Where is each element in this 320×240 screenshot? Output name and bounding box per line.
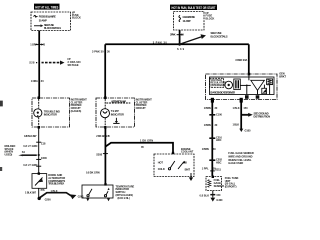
label 1 BRN 30 (3) — [202, 147, 217, 151]
svg-text:10 AMP: 10 AMP — [183, 19, 191, 23]
svg-text:G400: G400 — [216, 198, 223, 202]
ground G200 — [38, 197, 52, 202]
svg-text:(INTERNAL): (INTERNAL) — [210, 83, 224, 87]
wire W10 L circuit — [211, 102, 213, 176]
label 1 BLK 150 — [233, 106, 249, 110]
connector C202 — [209, 158, 222, 165]
wire W4 to generator — [248, 44, 250, 73]
generator B+ terminal — [248, 73, 251, 76]
svg-text:0.8 LT GRN: 0.8 LT GRN — [23, 163, 37, 167]
wire W1 main feed from F1 — [38, 31, 40, 99]
svg-text:1 BRN: 1 BRN — [204, 106, 211, 110]
connector S211 — [210, 168, 221, 172]
svg-text:0.8 BLK 897: 0.8 BLK 897 — [24, 134, 37, 138]
svg-text:COLD: COLD — [158, 167, 165, 171]
resistor box — [267, 79, 273, 85]
label 1 PPL 30 — [202, 166, 217, 170]
instrument cluster box left (charge indicator) — [32, 96, 70, 128]
svg-text:0.8 BLK: 0.8 BLK — [200, 193, 210, 197]
scan artifact left edge 2 — [0, 167, 2, 171]
wire W12 sender ground — [212, 191, 214, 198]
switch bottom terminals — [86, 198, 110, 201]
wire W5 to cluster — [104, 44, 106, 97]
svg-text:CHARGE INDICATOR DRIVER: CHARGE INDICATOR DRIVER — [210, 91, 235, 95]
svg-text:0.8 DK GRN: 0.8 DK GRN — [86, 170, 100, 174]
svg-text:1 ORA: 1 ORA — [31, 79, 38, 83]
diode module box — [32, 172, 47, 188]
diode square — [262, 88, 267, 94]
ground branch wire — [39, 193, 72, 198]
svg-text:BLOCK DETAILS: BLOCK DETAILS — [44, 26, 61, 30]
svg-text:1 BRN: 1 BRN — [202, 147, 209, 151]
gauge symbol — [113, 118, 119, 124]
connector C210 — [209, 135, 222, 142]
svg-text:INDICATOR: INDICATOR — [111, 112, 124, 116]
wire W2 from F2 — [179, 30, 181, 44]
wire W3 bus horizontal — [105, 43, 249, 45]
svg-text:WIRE AND GROUND: WIRE AND GROUND — [228, 154, 252, 158]
svg-text:C18: C18 — [41, 141, 46, 145]
svg-text:(EXPORT): (EXPORT) — [225, 184, 237, 188]
svg-text:150: 150 — [216, 193, 221, 197]
label SEE GROUND DISTRIBUTION — [254, 111, 271, 118]
svg-text:1 DK GRN: 1 DK GRN — [140, 138, 153, 142]
svg-text:HOT IN RUN, BULB TEST OR START: HOT IN RUN, BULB TEST OR START — [172, 6, 217, 10]
svg-text:1 BLK: 1 BLK — [233, 122, 240, 126]
sender contacts — [158, 160, 191, 171]
ground G201 — [70, 194, 84, 199]
svg-text:2 DK GRN 35: 2 DK GRN 35 — [96, 134, 110, 138]
svg-text:(EXC 2.8L): (EXC 2.8L) — [118, 196, 130, 200]
svg-text:HOT: HOT — [158, 160, 164, 164]
header HOT AT ALL TIMES — [34, 4, 60, 10]
charge indicator bulb — [34, 109, 42, 117]
splice S208 — [96, 152, 108, 156]
connector C18 — [36, 141, 46, 145]
splice dot S4 — [38, 154, 40, 156]
label SEE FUSE BLOCK DETAILS — [211, 31, 228, 38]
fuse block F2 GAUGES (dashed) — [174, 12, 205, 31]
connector tick — [200, 193, 222, 197]
label FUEL GAGE SENDER — [214, 178, 225, 188]
svg-text:POS BUS (+) WIRE: POS BUS (+) WIRE — [39, 14, 56, 18]
svg-text:0.8 LT GRN: 0.8 LT GRN — [23, 144, 37, 148]
svg-text:B: B — [185, 160, 187, 164]
svg-text:HOT AT ALL TIMES: HOT AT ALL TIMES — [35, 5, 59, 9]
svg-text:S211: S211 — [215, 168, 221, 172]
temp indicator bulb — [101, 109, 110, 118]
label 1 ORA 30 — [31, 79, 44, 83]
svg-text:WHEN FUEL LEVEL: WHEN FUEL LEVEL — [228, 158, 252, 162]
wire W9 branch to sender — [105, 143, 173, 153]
fuse F2 value labels — [183, 15, 196, 23]
label FUEL TANK UNIT — [225, 176, 239, 188]
svg-text:3 PNK 30: 3 PNK 30 — [92, 50, 104, 54]
field winding box — [234, 79, 241, 90]
wire W6 charge ind lower — [38, 127, 40, 174]
wire W8 temp ind feed — [104, 129, 106, 185]
label FUEL GAGE SENDER note — [228, 151, 254, 165]
connector tick on W2 — [177, 34, 183, 36]
generator ground terminal — [240, 98, 243, 103]
instrument cluster box right (temp indicator) — [96, 96, 135, 128]
svg-text:USED): USED) — [5, 152, 13, 156]
svg-text:(GAGES): (GAGES) — [71, 109, 82, 113]
svg-text:HDC: HDC — [216, 138, 222, 142]
svg-text:1 BLK: 1 BLK — [51, 189, 58, 193]
svg-text:ALTERNATOR LAMP: ALTERNATOR LAMP — [111, 99, 126, 103]
field rotor circle — [225, 81, 233, 89]
label INSTRUMENT CLUSTER (right of box) — [136, 98, 153, 110]
svg-text:INDICATOR: INDICATOR — [44, 113, 57, 117]
wire W11 ground circuit — [240, 102, 242, 129]
svg-text:BMT: BMT — [185, 168, 191, 172]
wire W7 diode to ground — [38, 188, 40, 197]
generator L terminal — [211, 98, 214, 103]
svg-text:P/S: P/S — [41, 188, 45, 192]
temperature indicator switch box — [82, 183, 113, 198]
svg-text:DISTRIBUTION: DISTRIBUTION — [254, 115, 271, 119]
svg-text:GAUGES FUSE: GAUGES FUSE — [183, 15, 196, 19]
svg-text:SENDER: SENDER — [214, 184, 225, 188]
svg-text:S208: S208 — [96, 152, 102, 156]
sender resistor — [208, 180, 211, 188]
svg-text:140: 140 — [41, 42, 46, 46]
svg-text:1 BLK 897: 1 BLK 897 — [25, 191, 37, 195]
fuse block F1 (dashed) — [31, 12, 71, 31]
svg-text:CIRCUIT: CIRCUIT — [136, 106, 146, 110]
label SEE BLANK DETAILS — [68, 57, 82, 67]
svg-text:G105: G105 — [245, 128, 252, 132]
connector C200 — [36, 156, 47, 160]
scan artifact left edge — [0, 101, 3, 107]
svg-text:HBC: HBC — [216, 160, 222, 164]
connector tick C on W1 — [36, 43, 44, 45]
label 3 PNK 39 — [170, 33, 184, 37]
label 1 ORA 140 — [30, 42, 45, 46]
detail arrow at S28 — [42, 61, 65, 65]
ground G400 — [210, 198, 223, 203]
svg-text:C100: C100 — [216, 112, 223, 116]
label TEMP INDICATOR — [111, 109, 124, 116]
molded splice arrow — [18, 150, 37, 156]
svg-text:G200: G200 — [45, 198, 52, 202]
fuse F1 value labels — [39, 14, 62, 30]
fuel gage sender box (dashed) — [206, 176, 222, 191]
generator outer housing (dash-dot) — [206, 74, 278, 100]
svg-text:SB PAGE: SB PAGE — [68, 63, 79, 67]
svg-text:BLOCK DETAILS: BLOCK DETAILS — [211, 35, 228, 39]
stator wire into triangle — [248, 75, 250, 80]
connector C100 — [209, 112, 222, 116]
svg-text:BLOCK: BLOCK — [206, 16, 215, 20]
voltage regulator (dashed) — [210, 78, 226, 87]
label CHARGE INDICATOR — [44, 109, 60, 116]
svg-text:BRKT: BRKT — [279, 75, 286, 79]
svg-text:C200: C200 — [41, 156, 48, 160]
junction S39 — [178, 43, 181, 46]
label COOLANT SENDER — [181, 147, 194, 154]
svg-text:S39: S39 — [177, 47, 185, 51]
ground G105 — [239, 128, 251, 132]
label I/P FUSE BLOCK (right) — [206, 11, 215, 21]
svg-text:BLOCK: BLOCK — [72, 15, 81, 19]
svg-text:30 AMP: 30 AMP — [39, 19, 47, 23]
svg-text:GAGE USED: GAGE USED — [228, 161, 243, 165]
internal stub terminals — [245, 95, 259, 99]
svg-text:1 ORA: 1 ORA — [30, 42, 37, 46]
interior connections — [240, 85, 269, 95]
coolant temp sender box (dashed) — [154, 152, 194, 177]
sender ground — [189, 173, 193, 181]
driver triangle — [251, 80, 265, 90]
svg-text:FUEL GAGE SENDER: FUEL GAGE SENDER — [228, 151, 254, 155]
svg-text:3 PNK 30: 3 PNK 30 — [153, 41, 168, 45]
label 1 BRN 30 (2) — [204, 123, 218, 127]
header HOT IN RUN BULB TEST OR START — [170, 5, 217, 10]
svg-text:1 BRN: 1 BRN — [204, 123, 211, 127]
label 3 PNK 30 (corner) — [92, 50, 110, 54]
label 1 BRN 30 — [204, 106, 218, 110]
generator inner box — [210, 77, 275, 95]
svg-text:150: 150 — [243, 106, 248, 110]
fuse F1 detail arrow — [34, 24, 43, 27]
fuse details arrow (diagonal) — [180, 37, 202, 45]
svg-text:COOLANT: COOLANT — [181, 150, 194, 154]
label GENERATOR — [279, 72, 286, 79]
label INSTRUMENT CLUSTER PRINTED CIRCUIT — [71, 98, 88, 113]
label TEMPERATURE INDICATOR SWITCH — [116, 184, 135, 199]
label MOLDED SPLICE (WHEN USED) — [5, 144, 16, 156]
svg-text:SEE FUSE: SEE FUSE — [211, 31, 222, 35]
connector tick — [36, 165, 41, 167]
svg-text:S28 ■: S28 ■ — [29, 61, 38, 65]
label DIODE ALTERNATOR COMPONENTS — [48, 173, 65, 185]
svg-text:1 BLK: 1 BLK — [233, 106, 240, 110]
svg-text:3 RED 23A: 3 RED 23A — [235, 58, 247, 62]
svg-text:TROUBLE AREA: TROUBLE AREA — [48, 182, 64, 186]
svg-text:1 PPL: 1 PPL — [202, 166, 209, 170]
label FUSE BLOCK (left) — [72, 10, 81, 19]
svg-text:3 PNK: 3 PNK — [170, 33, 176, 37]
switch contacts — [87, 188, 110, 197]
ground distribution arrow — [242, 113, 253, 117]
